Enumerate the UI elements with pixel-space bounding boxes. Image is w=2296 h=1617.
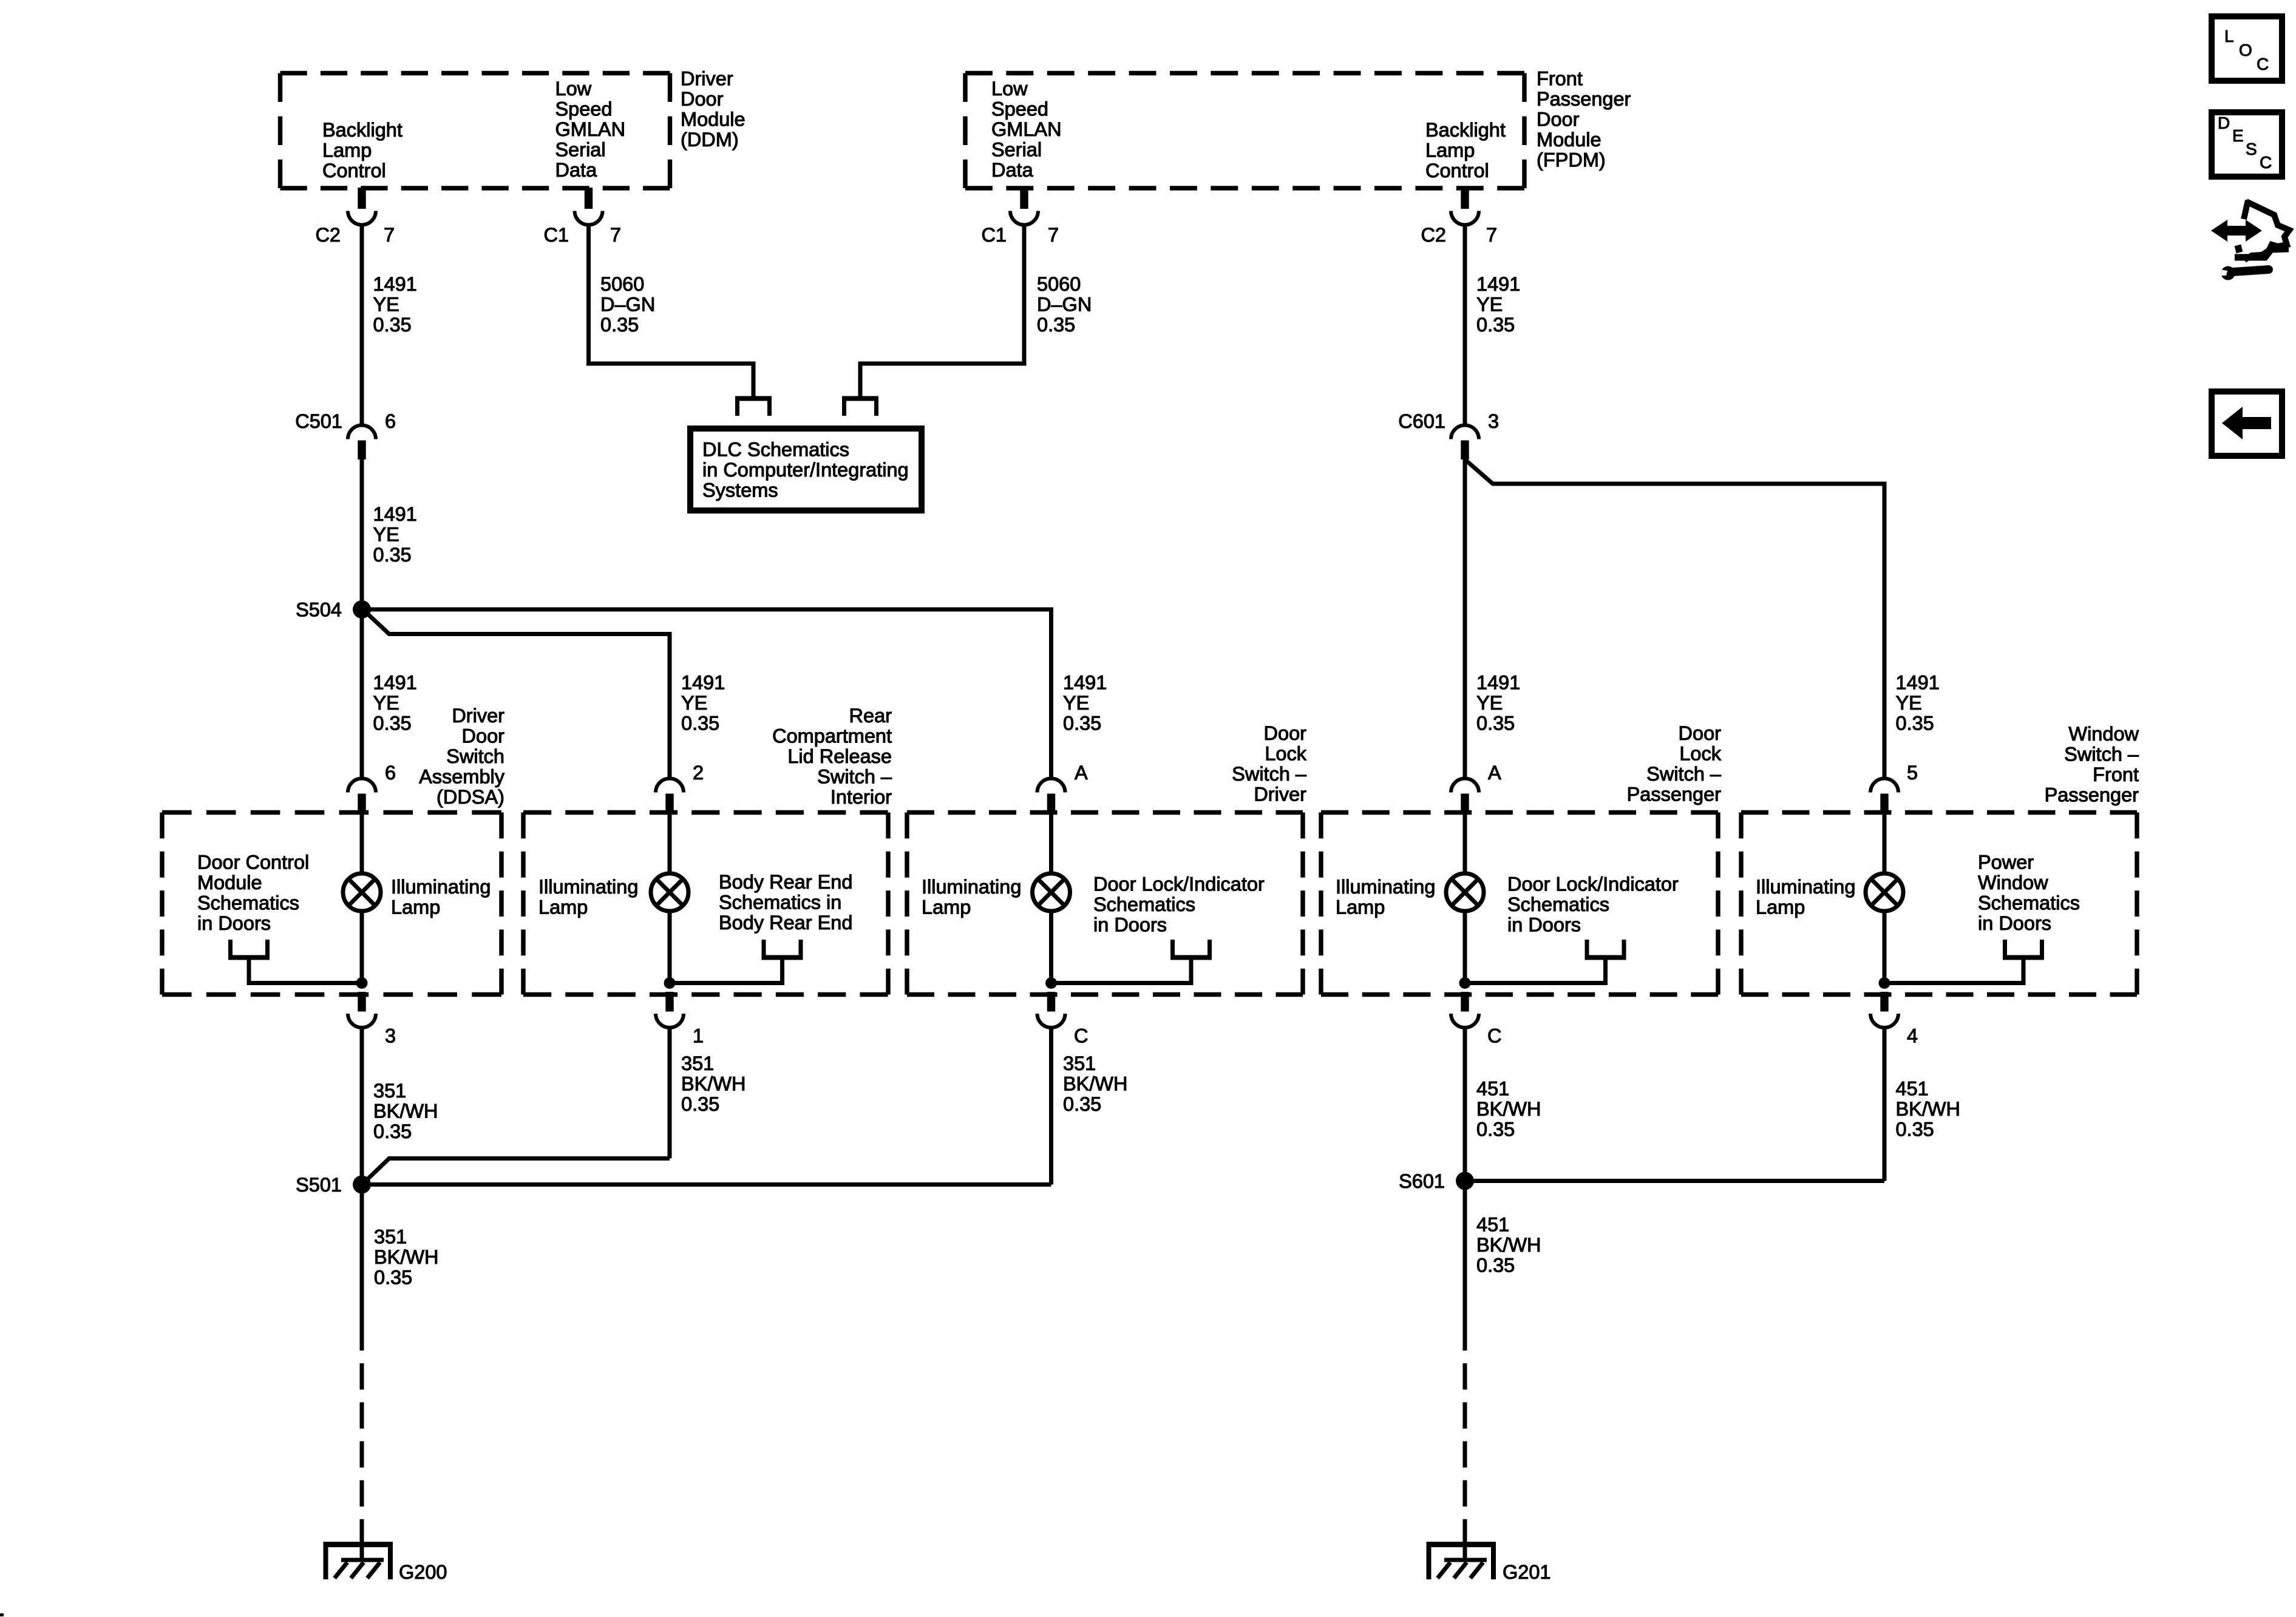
svg-text:Illuminating: Illuminating	[1756, 876, 1855, 898]
svg-text:Data: Data	[555, 159, 598, 181]
svg-text:Lamp: Lamp	[391, 897, 440, 918]
label S504	[296, 599, 342, 621]
junction dot (door lock driver)	[1045, 977, 1057, 989]
svg-text:451: 451	[1476, 1078, 1509, 1100]
svg-text:0.35: 0.35	[1063, 1093, 1101, 1115]
connector pin C below door lock passenger box	[1451, 992, 1479, 1028]
box door control module / DDSA (dashed)	[162, 813, 501, 995]
schematic pointer bracket (power window)	[1884, 940, 2044, 983]
label Driver Door Switch Assembly (DDSA)	[419, 705, 505, 808]
svg-text:0.35: 0.35	[1476, 314, 1515, 336]
svg-text:Door: Door	[1679, 722, 1722, 744]
wire label 5060 D-GN 0.35 (left)	[600, 273, 655, 336]
svg-text:7: 7	[1486, 224, 1497, 246]
connector pin 6 into DDSA box	[348, 779, 376, 815]
svg-text:1: 1	[693, 1025, 704, 1047]
svg-text:Backlight: Backlight	[1425, 119, 1506, 141]
wire pin C down to S501	[1049, 1028, 1053, 1185]
svg-text:0.35: 0.35	[1476, 713, 1515, 734]
svg-text:in Doors: in Doors	[1978, 912, 2051, 934]
svg-text:Data: Data	[991, 159, 1034, 181]
label Illuminating Lamp (door lock driver)	[922, 876, 1021, 918]
schematic pointer bracket (door lock driver)	[1051, 940, 1212, 983]
connector C2 pin 7 (FPDM backlight output)	[1451, 188, 1479, 225]
svg-text:Schematics: Schematics	[1093, 893, 1195, 915]
icon LOC box	[2212, 16, 2282, 81]
wire into lamp 3	[1049, 814, 1053, 875]
svg-text:YE: YE	[1476, 294, 1503, 316]
label C601	[1398, 410, 1445, 432]
svg-text:BK/WH: BK/WH	[681, 1073, 746, 1095]
label Door Lock Switch - Passenger	[1627, 722, 1722, 805]
label pin 3 (C601)	[1488, 410, 1499, 432]
junction dot (window switch)	[1879, 977, 1890, 989]
component bracket into DLC (right)	[842, 399, 878, 416]
wire branch C601 to window switch	[1465, 459, 1884, 779]
svg-text:6: 6	[385, 410, 396, 432]
connector C2 pin 7 (DDM backlight output)	[348, 188, 376, 225]
svg-text:Low: Low	[555, 78, 592, 100]
label Door Control Module Schematics in Doors	[197, 852, 309, 935]
wire label 1491 YE 0.35 (FPDM-C601)	[1476, 273, 1520, 336]
label Driver Door Module (DDM)	[681, 68, 746, 151]
wire pin 1 down to S501 branch	[668, 1028, 672, 1159]
svg-text:Serial: Serial	[555, 139, 606, 161]
DLC Schematics box	[690, 429, 922, 510]
svg-text:C501: C501	[295, 410, 342, 432]
svg-text:Window: Window	[1978, 872, 2048, 893]
svg-text:GMLAN: GMLAN	[555, 118, 626, 140]
label Low Speed GMLAN Serial Data (FPDM)	[991, 78, 1062, 181]
svg-text:S601: S601	[1399, 1170, 1445, 1192]
svg-text:Front: Front	[2093, 764, 2139, 785]
wire S504 to rear compartment switch (lower branch)	[367, 613, 670, 779]
svg-text:4: 4	[1907, 1025, 1918, 1047]
svg-text:Door: Door	[1264, 722, 1307, 744]
svg-text:G201: G201	[1503, 1561, 1551, 1583]
svg-text:Door: Door	[462, 725, 505, 747]
svg-text:Module: Module	[681, 109, 746, 131]
svg-text:Schematics: Schematics	[1507, 893, 1609, 915]
svg-text:Body Rear End: Body Rear End	[719, 871, 852, 893]
connector pin 4 below window switch box	[1870, 992, 1898, 1028]
svg-text:451: 451	[1896, 1078, 1929, 1100]
wire 1491 YE from C501 to S504	[360, 459, 364, 609]
label pin C (door lock passenger)	[1487, 1025, 1501, 1047]
svg-text:GMLAN: GMLAN	[991, 118, 1062, 140]
svg-text:351: 351	[373, 1080, 406, 1102]
wire label 1491 YE 0.35 (DDSA drop)	[373, 672, 417, 734]
svg-text:Door: Door	[681, 88, 724, 110]
label pin C (door lock driver)	[1074, 1025, 1088, 1047]
svg-text:C1: C1	[981, 224, 1007, 246]
svg-text:E: E	[2232, 126, 2244, 145]
svg-text:Door Lock/Indicator: Door Lock/Indicator	[1507, 873, 1679, 895]
svg-text:YE: YE	[1896, 692, 1922, 714]
svg-text:Backlight: Backlight	[322, 119, 402, 141]
svg-text:351: 351	[681, 1053, 714, 1074]
svg-text:in Doors: in Doors	[197, 912, 271, 934]
svg-text:Switch –: Switch –	[817, 766, 892, 788]
label C1 (DDM)	[543, 224, 569, 246]
svg-text:5060: 5060	[600, 273, 644, 295]
svg-text:0.35: 0.35	[373, 1120, 412, 1142]
splice S601	[1456, 1172, 1474, 1190]
svg-text:351: 351	[374, 1226, 407, 1248]
wire into lamp 4	[1463, 814, 1467, 875]
label pin 6 (DDSA)	[385, 762, 396, 784]
wire pin C down to S601	[1463, 1028, 1467, 1181]
svg-text:3: 3	[385, 1025, 396, 1047]
svg-text:Window: Window	[2068, 723, 2139, 745]
splice S504	[353, 600, 371, 619]
svg-text:5: 5	[1907, 762, 1918, 784]
schematic pointer bracket (body rear end)	[670, 940, 803, 983]
svg-text:Assembly: Assembly	[419, 766, 505, 788]
svg-text:Lamp: Lamp	[1336, 897, 1385, 918]
label Body Rear End Schematics in Body Rear End	[719, 871, 852, 934]
svg-text:YE: YE	[373, 524, 399, 546]
label Front Passenger Door Module (FPDM)	[1537, 68, 1631, 171]
wire pin 3 down to S501	[360, 1028, 364, 1185]
box door lock switch passenger (dashed)	[1321, 813, 1718, 995]
wire label 351 BK/WH 0.35 (DDSA)	[373, 1080, 438, 1142]
svg-text:BK/WH: BK/WH	[374, 1246, 439, 1268]
label C2 (FPDM)	[1421, 224, 1446, 246]
junction dot (DDSA)	[356, 977, 368, 989]
svg-text:L: L	[2224, 27, 2234, 46]
svg-text:Switch –: Switch –	[2064, 744, 2139, 765]
svg-text:BK/WH: BK/WH	[1896, 1098, 1961, 1120]
svg-text:S: S	[2246, 140, 2257, 158]
svg-text:Speed: Speed	[991, 98, 1048, 120]
svg-text:2: 2	[693, 762, 704, 784]
label pin 2 (rear compartment switch)	[693, 762, 704, 784]
label Illuminating Lamp (window switch)	[1756, 876, 1855, 918]
svg-text:Driver: Driver	[681, 68, 733, 90]
wire 5060 D-GN from DDM C1	[575, 188, 754, 396]
label pin 4 (window switch)	[1907, 1025, 1918, 1047]
in-line connector C501 pin 6	[348, 425, 376, 460]
svg-text:7: 7	[610, 224, 621, 246]
svg-text:0.35: 0.35	[1896, 1119, 1934, 1141]
svg-text:0.35: 0.35	[374, 1267, 412, 1289]
wire window switch to S601	[1465, 1179, 1884, 1183]
label S601	[1399, 1170, 1445, 1192]
svg-text:Lamp: Lamp	[922, 897, 971, 918]
icon double arrow with part outline and wrench	[2211, 200, 2289, 280]
svg-text:Door Control: Door Control	[197, 852, 309, 873]
label C2	[315, 224, 341, 246]
connector pin 2 into rear compartment switch box	[656, 779, 684, 815]
wire lamp 4 to junction	[1463, 910, 1467, 983]
svg-text:1491: 1491	[373, 672, 417, 694]
wire label 451 BK/WH 0.35 (door lock passenger)	[1476, 1078, 1541, 1141]
svg-text:3: 3	[1488, 410, 1499, 432]
wire pin 4 down to S601 branch	[1883, 1028, 1887, 1181]
svg-text:Control: Control	[1425, 160, 1489, 181]
label Door Lock/Indicator Schematics in Doors (passenger)	[1507, 873, 1679, 936]
schematic pointer bracket (door lock passenger)	[1465, 940, 1626, 983]
svg-text:Illuminating: Illuminating	[538, 876, 638, 898]
svg-text:Lock: Lock	[1265, 743, 1306, 765]
svg-text:Schematics: Schematics	[1978, 892, 2080, 914]
svg-text:1491: 1491	[373, 273, 417, 295]
svg-text:A: A	[1075, 762, 1088, 784]
wire into lamp 1	[360, 814, 364, 875]
svg-text:Rear: Rear	[849, 705, 892, 727]
svg-text:451: 451	[1476, 1214, 1509, 1236]
svg-text:Module: Module	[197, 872, 262, 893]
svg-text:Lamp: Lamp	[322, 140, 372, 161]
svg-text:Schematics in: Schematics in	[719, 892, 841, 914]
svg-text:351: 351	[1063, 1053, 1096, 1074]
svg-text:in Doors: in Doors	[1093, 914, 1167, 936]
svg-text:Lamp: Lamp	[538, 897, 588, 918]
svg-text:1491: 1491	[373, 503, 417, 525]
ground G200	[324, 1530, 447, 1583]
svg-text:(DDM): (DDM)	[681, 129, 739, 151]
svg-text:Speed: Speed	[555, 98, 613, 120]
svg-text:YE: YE	[1476, 692, 1503, 714]
svg-text:D: D	[2218, 114, 2230, 132]
wire label 351 BK/WH 0.35 (below S501)	[374, 1226, 439, 1289]
svg-text:(DDSA): (DDSA)	[436, 786, 504, 808]
wire label 1491 YE 0.35 (rear compartment drop)	[681, 672, 725, 734]
illuminating lamp 2 (rear compartment)	[651, 873, 688, 911]
svg-text:(FPDM): (FPDM)	[1537, 149, 1606, 171]
wire label 1491 YE 0.35 (window switch drop)	[1896, 672, 1940, 734]
wire label 1491 YE 0.35 (door lock driver drop)	[1063, 672, 1107, 734]
svg-text:1491: 1491	[1476, 273, 1520, 295]
svg-text:DLC Schematics: DLC Schematics	[702, 439, 849, 461]
svg-text:D–GN: D–GN	[600, 294, 655, 316]
svg-text:Passenger: Passenger	[2045, 784, 2139, 806]
box door lock switch driver (dashed)	[907, 813, 1303, 995]
svg-text:Serial: Serial	[991, 139, 1042, 161]
svg-text:C1: C1	[543, 224, 569, 246]
svg-text:0.35: 0.35	[681, 1093, 719, 1115]
label pin 3 (DDSA)	[385, 1025, 396, 1047]
label Window Switch - Front Passenger	[2045, 723, 2139, 806]
wire drop to door lock switch driver pin A	[1049, 608, 1053, 779]
schematic pointer bracket (door control module)	[228, 940, 362, 983]
svg-text:Interior: Interior	[830, 786, 892, 808]
svg-text:Door: Door	[1537, 109, 1580, 131]
wire label 451 BK/WH 0.35 (window switch)	[1896, 1078, 1961, 1141]
svg-text:Switch –: Switch –	[1646, 763, 1722, 785]
svg-text:C601: C601	[1398, 410, 1445, 432]
label pin 7 (DDM C1)	[610, 224, 621, 246]
box rear compartment lid release switch (dashed)	[523, 813, 888, 995]
svg-text:C: C	[2260, 153, 2272, 172]
illuminating lamp 4 (door lock passenger)	[1446, 873, 1484, 911]
svg-text:C2: C2	[1421, 224, 1446, 246]
ground G201	[1427, 1530, 1551, 1583]
component bracket into DLC (left)	[735, 399, 772, 416]
wire S504 down to DDSA	[360, 609, 364, 779]
label C501	[295, 410, 342, 432]
wire into lamp 5	[1883, 814, 1887, 875]
svg-text:BK/WH: BK/WH	[1476, 1234, 1541, 1256]
svg-text:C: C	[1074, 1025, 1088, 1047]
wire S501 to ground dashed	[360, 1363, 364, 1545]
connector pin 5 into window switch box	[1870, 779, 1898, 815]
wire label 451 BK/WH 0.35 (below S601)	[1476, 1214, 1541, 1276]
wire label 1491 YE 0.35 (DDM-C501)	[373, 273, 417, 336]
svg-text:YE: YE	[681, 692, 707, 714]
icon DESC box	[2212, 112, 2282, 177]
box window switch front passenger (dashed)	[1741, 813, 2137, 995]
wire lamp 3 to junction	[1049, 910, 1053, 983]
label Power Window Schematics in Doors	[1978, 852, 2080, 935]
scan speck bottom-left corner	[0, 1613, 4, 1616]
label Door Lock Switch - Driver	[1232, 722, 1307, 805]
svg-text:Lock: Lock	[1679, 743, 1721, 765]
svg-text:Driver: Driver	[1254, 784, 1306, 805]
label pin 7 (FPDM C1)	[1048, 224, 1059, 246]
svg-text:Schematics: Schematics	[197, 892, 299, 914]
svg-text:Illuminating: Illuminating	[1336, 876, 1435, 898]
connector pin 1 below rear compartment box	[656, 992, 684, 1028]
svg-text:S504: S504	[296, 599, 342, 621]
svg-text:A: A	[1488, 762, 1501, 784]
svg-text:G200: G200	[399, 1561, 447, 1583]
label Illuminating Lamp (DDSA)	[391, 876, 491, 918]
svg-text:Switch –: Switch –	[1232, 763, 1307, 785]
illuminating lamp 5 (window switch)	[1866, 873, 1903, 911]
svg-text:Front: Front	[1537, 68, 1583, 90]
label Low Speed GMLAN Serial Data (DDM)	[555, 78, 626, 181]
svg-text:C2: C2	[315, 224, 341, 246]
svg-text:Passenger: Passenger	[1627, 784, 1722, 805]
svg-text:1491: 1491	[1896, 672, 1940, 694]
svg-text:Lid Release: Lid Release	[787, 745, 892, 767]
svg-text:7: 7	[384, 224, 395, 246]
svg-text:5060: 5060	[1037, 273, 1081, 295]
wire C601 down to door lock switch passenger	[1463, 459, 1467, 779]
svg-text:YE: YE	[373, 294, 399, 316]
wire S601 to ground solid	[1463, 1181, 1467, 1351]
svg-text:1491: 1491	[1063, 672, 1107, 694]
junction dot (door lock passenger)	[1459, 977, 1471, 989]
svg-text:S501: S501	[296, 1174, 342, 1196]
svg-text:BK/WH: BK/WH	[1476, 1098, 1541, 1120]
svg-text:BK/WH: BK/WH	[373, 1100, 438, 1122]
wire label 1491 YE 0.35 (C501-S504)	[373, 503, 417, 566]
svg-text:0.35: 0.35	[373, 544, 412, 566]
wire 1491 YE from FPDM C2 to C601	[1463, 223, 1467, 425]
in-line connector C601 pin 3	[1451, 425, 1479, 460]
svg-text:Passenger: Passenger	[1537, 88, 1631, 110]
icon back arrow box	[2212, 392, 2282, 456]
label Backlight Lamp Control (DDM)	[322, 119, 402, 181]
svg-text:in Computer/Integrating: in Computer/Integrating	[702, 459, 909, 481]
label pin 1 (rear compartment)	[693, 1025, 704, 1047]
label C1 (FPDM)	[981, 224, 1007, 246]
wire door lock driver to S501	[362, 1182, 1051, 1187]
illuminating lamp 1 (DDSA)	[343, 873, 381, 911]
svg-text:0.35: 0.35	[1037, 314, 1075, 336]
wire 1491 YE from DDM C2 to C501	[360, 223, 364, 425]
svg-text:0.35: 0.35	[1063, 713, 1101, 734]
wire label 1491 YE 0.35 (door lock passenger drop)	[1476, 672, 1520, 734]
connector pin 3 below DDSA box	[348, 992, 376, 1028]
junction dot (rear compartment)	[664, 977, 676, 989]
svg-text:YE: YE	[373, 692, 399, 714]
module box DDM (dashed)	[280, 73, 670, 189]
svg-text:0.35: 0.35	[1476, 1119, 1515, 1141]
module box FPDM (dashed)	[965, 73, 1524, 189]
svg-text:1491: 1491	[1476, 672, 1520, 694]
svg-text:0.35: 0.35	[1476, 1255, 1515, 1276]
svg-text:Driver: Driver	[452, 705, 504, 727]
label Rear Compartment Lid Release Switch - Interior	[772, 705, 892, 808]
svg-text:Lamp: Lamp	[1756, 897, 1805, 918]
wire S501 to ground solid	[360, 1185, 364, 1351]
wire lamp 1 to junction	[360, 910, 364, 983]
svg-text:Switch: Switch	[446, 745, 504, 767]
splice S501	[353, 1176, 371, 1194]
svg-text:1491: 1491	[681, 672, 725, 694]
svg-text:6: 6	[385, 762, 396, 784]
connector pin A into door lock switch driver box	[1038, 779, 1065, 815]
svg-text:D–GN: D–GN	[1037, 294, 1092, 316]
wire S601 to ground dashed	[1463, 1363, 1467, 1545]
wire lamp 2 to junction	[668, 910, 672, 983]
svg-text:Illuminating: Illuminating	[922, 876, 1021, 898]
svg-text:0.35: 0.35	[1896, 713, 1934, 734]
svg-text:0.35: 0.35	[681, 713, 719, 734]
label pin A (door lock switch driver)	[1075, 762, 1088, 784]
label pin 6 (C501)	[385, 410, 396, 432]
wire into lamp 2	[668, 814, 672, 875]
svg-text:C: C	[1487, 1025, 1501, 1047]
svg-text:Lamp: Lamp	[1425, 140, 1475, 161]
label pin 7 (FPDM C2)	[1486, 224, 1497, 246]
connector pin C below door lock driver box	[1038, 992, 1065, 1028]
wire label 351 BK/WH 0.35 (door lock driver)	[1063, 1053, 1128, 1115]
svg-text:O: O	[2239, 41, 2252, 59]
label pin 5 (window switch)	[1907, 762, 1918, 784]
svg-text:Module: Module	[1537, 129, 1601, 151]
label Door Lock/Indicator Schematics in Doors (driver)	[1093, 873, 1265, 936]
svg-text:Low: Low	[991, 78, 1028, 100]
svg-text:0.35: 0.35	[373, 314, 412, 336]
wire label 351 BK/WH 0.35 (rear compartment)	[681, 1053, 746, 1115]
label pin 7 (DDM C2)	[384, 224, 395, 246]
svg-text:Power: Power	[1978, 852, 2034, 873]
svg-text:0.35: 0.35	[373, 713, 412, 734]
svg-text:BK/WH: BK/WH	[1063, 1073, 1128, 1095]
svg-text:7: 7	[1048, 224, 1059, 246]
connector pin A into door lock switch passenger box	[1451, 779, 1479, 815]
svg-text:Body Rear End: Body Rear End	[719, 912, 852, 934]
svg-text:C: C	[2257, 55, 2269, 73]
label S501	[296, 1174, 342, 1196]
svg-text:Door Lock/Indicator: Door Lock/Indicator	[1093, 873, 1265, 895]
svg-text:Compartment: Compartment	[772, 725, 892, 747]
label Illuminating Lamp (door lock passenger)	[1336, 876, 1435, 918]
svg-text:YE: YE	[1063, 692, 1089, 714]
wire 5060 D-GN from FPDM C1	[860, 188, 1038, 396]
label Backlight Lamp Control (FPDM)	[1425, 119, 1506, 181]
svg-text:0.35: 0.35	[600, 314, 639, 336]
svg-text:Illuminating: Illuminating	[391, 876, 491, 898]
wire S504 to door lock switch driver (top branch)	[362, 608, 1051, 612]
illuminating lamp 3 (door lock driver)	[1033, 873, 1070, 911]
label pin A (door lock switch passenger)	[1488, 762, 1501, 784]
